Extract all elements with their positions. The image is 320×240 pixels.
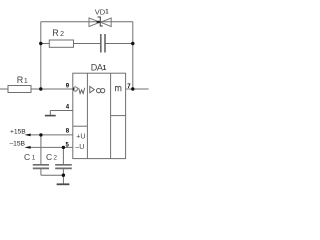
wire C3 right to node B [105,43,133,45]
node -15B junction (C2) [62,146,65,149]
ground (bottom) [57,183,70,185]
node input junction [39,87,42,90]
capacitor C2 [55,165,72,169]
svg-text:C2: C2 [46,152,57,162]
power +15B terminal arrow [24,134,30,137]
node pin 9 input bubble [73,87,77,91]
wire top feedback (VD1 branch) [41,21,133,23]
amplifier infinite-gain glyph [90,86,95,92]
ground (pin 4) [45,115,56,117]
svg-text:C1: C1 [24,152,36,162]
svg-text:+15B: +15B [10,129,26,136]
resistor R1 [8,86,31,93]
wire right feedback vertical [132,22,134,89]
wire R2 right to C3 left [74,43,101,45]
junction VD1 center [96,21,100,23]
svg-text:–U: –U [75,144,84,151]
demodulator m glyph [116,86,121,91]
wire +15B rail to pin 8 [28,134,73,136]
wire R1 to pin 9 [31,88,73,90]
wire C2 top lead [62,147,64,164]
node ground bus junction [62,174,65,177]
resistor R2 [49,40,73,47]
svg-text:+U: +U [76,134,85,141]
wire C2 bottom lead [62,169,64,175]
diode VD1 (bidirectional zener) [89,18,111,27]
modulator W glyph [79,88,85,94]
capacitor C1 [33,165,49,169]
node output junction [131,87,134,90]
wire input to R1 [0,88,8,90]
wire ground bus [41,174,64,176]
wire output pin 7 [126,88,149,90]
wire C1 bottom lead [40,169,42,175]
capacitor C3 (feedback) [101,34,105,53]
wire left feedback vertical [40,22,42,89]
svg-text:VD1: VD1 [95,8,109,17]
wire node A to R2 left [41,43,50,45]
power -15B terminal arrow [24,146,30,149]
node +15B junction (C1) [39,133,42,136]
diode VD1 cathode bar [98,17,103,27]
node A junction (R2 tap) [39,42,42,45]
node B junction (feedback right) [131,42,134,45]
wire pin 4 ground drop [49,111,51,116]
wire pin 4 to ground [50,110,73,112]
wire -15B rail to pin 5 [28,146,73,148]
wire bus to bottom ground [62,175,64,184]
wire C1 top lead [40,135,42,164]
op-amp U1 (DA1 outline) [73,73,126,158]
svg-text:–15B: –15B [10,141,26,148]
